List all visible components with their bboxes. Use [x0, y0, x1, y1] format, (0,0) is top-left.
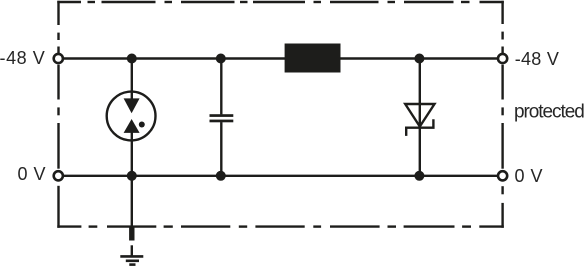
zener diode V1: cathode bar with bent ends — [406, 119, 433, 136]
terminal: right -48 V protected — [498, 54, 507, 63]
wire: earth conductor from 0 V rail through enclosure — [131, 176, 133, 228]
ground symbol: bar 3 — [129, 263, 135, 266]
terminal: left 0 V — [54, 171, 63, 180]
enclosure dash-dot border: bottom side — [57, 225, 504, 227]
capacitor C1: bottom plate — [210, 120, 234, 123]
terminal: right 0 V protected — [498, 171, 507, 180]
wire: top rail -48 V — [64, 57, 498, 59]
junction dot: diode / bottom rail — [414, 171, 424, 181]
ground symbol: bar 2 — [126, 259, 139, 262]
earth conductor: thick terminal segment below enclosure — [129, 227, 134, 240]
series impedance block (black box) — [285, 44, 341, 73]
junction dot: diode / top rail — [414, 54, 424, 64]
svg-text:0 V: 0 V — [515, 166, 544, 186]
GDT top electrode arrow — [124, 98, 140, 113]
enclosure dash-dot border: right side — [501, 1, 503, 228]
enclosure dash-dot border: left side — [57, 1, 59, 228]
svg-text:-48 V: -48 V — [515, 49, 559, 69]
junction dot: GDT / top rail — [127, 54, 137, 64]
junction dot: capacitor / top rail — [216, 54, 226, 64]
svg-text:-48 V: -48 V — [0, 48, 45, 68]
zener diode V1: vertical lead wire — [419, 59, 421, 176]
ground symbol: bar 1 — [120, 255, 143, 258]
zener diode V1: triangle (anode) — [405, 104, 434, 127]
wire: bottom rail 0 V — [64, 175, 498, 177]
svg-text:protected: protected — [514, 101, 584, 122]
wire: GDT top lead — [131, 59, 133, 100]
wire: earth conductor lower segment — [131, 245, 133, 256]
GDT gas-filled indicator dot — [139, 122, 145, 128]
GDT bottom electrode arrow — [124, 119, 140, 133]
junction dot: GDT / bottom rail — [127, 171, 137, 181]
wire: GDT bottom lead — [131, 133, 133, 176]
capacitor C1: top lead wire — [220, 59, 222, 115]
junction dot: capacitor / bottom rail — [216, 171, 226, 181]
capacitor C1: top plate — [210, 114, 234, 117]
capacitor C1: bottom lead wire — [220, 122, 222, 176]
gas discharge tube F1: circle — [107, 92, 156, 141]
terminal: left -48 V — [54, 54, 63, 63]
svg-text:0 V: 0 V — [18, 164, 47, 184]
enclosure dash-dot border: top side — [57, 1, 504, 3]
